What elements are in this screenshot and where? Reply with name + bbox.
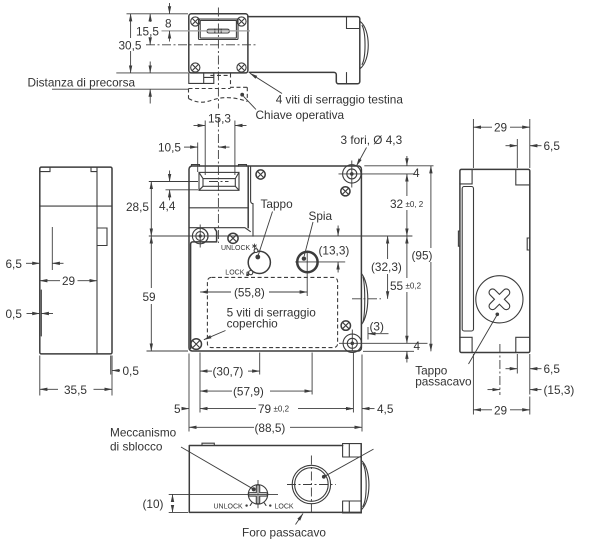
ext line: top hole center right	[362, 173, 414, 175]
right side view: bottom-left notch	[460, 337, 472, 352]
dim 10,5	[184, 146, 198, 148]
right side view: groove	[462, 187, 473, 332]
dim 5	[182, 408, 190, 410]
front view: Tappo dot	[255, 255, 260, 260]
svg-text:(55,8): (55,8)	[234, 286, 265, 300]
right side view: top-left notch	[460, 169, 472, 184]
bottom view: cable hole dot	[322, 475, 326, 479]
right side view: top-right notch	[516, 169, 530, 185]
svg-text:LOCK: LOCK	[225, 269, 244, 276]
front view: mounting lug left ear arc	[202, 229, 208, 244]
bottom view: body outline	[189, 446, 361, 513]
svg-text:35,5: 35,5	[64, 383, 87, 397]
front view: side plug bump inner	[363, 277, 365, 322]
leader: Meccanismo	[181, 447, 254, 489]
dim (15,3)	[488, 389, 500, 391]
svg-text:Distanza di precorsa: Distanza di precorsa	[28, 76, 136, 90]
ext line: bottom hole center right	[362, 342, 428, 344]
svg-text:UNLOCK: UNLOCK	[221, 245, 251, 252]
top view: key slot plate	[199, 19, 239, 40]
ext lines 35,5	[40, 356, 112, 396]
front view: cover screw 5	[191, 339, 202, 350]
front view: keyhole bevels	[199, 172, 239, 190]
front view: cover screw 3	[228, 233, 238, 243]
svg-text:±0,2: ±0,2	[274, 405, 290, 414]
front view: head lower step	[189, 228, 250, 232]
svg-text:10,5: 10,5	[158, 141, 181, 155]
left side view: cover seam	[96, 167, 98, 354]
right side view: bottom-right notch	[516, 337, 530, 352]
leader: Tappo passacavo	[469, 315, 498, 364]
svg-text:6,5: 6,5	[544, 139, 561, 153]
svg-text:30,5: 30,5	[119, 39, 142, 53]
ext line 6,5	[51, 227, 53, 270]
top view: head screw M4	[237, 63, 246, 72]
dim (3)	[367, 327, 369, 340]
top view: gray key-level line	[162, 30, 251, 32]
svg-text:29: 29	[62, 274, 75, 288]
ext line: body top right	[364, 165, 433, 167]
dim (10)	[169, 511, 188, 513]
top view: head horizontal centerline	[146, 44, 256, 46]
svg-text:4,4: 4,4	[159, 199, 176, 213]
right side view: bottom centerline	[499, 344, 501, 395]
front view: mounting hole top-right	[339, 161, 364, 188]
front view: Spia dot	[302, 256, 306, 260]
dim 6,5 top	[506, 145, 518, 147]
top view: head housing	[189, 14, 248, 73]
dim 55 +-0,2	[406, 236, 408, 278]
top view: body seam bottom	[346, 73, 348, 84]
dim 29 top	[473, 126, 492, 128]
dim (13,3)	[337, 226, 339, 237]
svg-text:±0,2: ±0,2	[406, 282, 422, 291]
dim 15,3	[194, 125, 206, 127]
svg-text:4 viti di serraggio testina: 4 viti di serraggio testina	[276, 93, 404, 107]
ext line: body bottom right	[363, 350, 414, 352]
bottom view: cable hole outer	[292, 465, 330, 503]
svg-text:8: 8	[165, 17, 172, 31]
svg-text:5: 5	[174, 402, 181, 416]
ext line: keyhole center left	[149, 181, 198, 183]
ext lines below body	[189, 353, 362, 432]
dim 30,5	[130, 14, 132, 38]
dim 15,5	[149, 14, 151, 22]
dim 6,5 left	[26, 262, 40, 264]
bottom view: key slot tab	[202, 443, 214, 445]
svg-text:di sblocco: di sblocco	[110, 440, 163, 454]
leader: Chiave operativa	[244, 96, 257, 109]
leader: 5 viti	[204, 331, 226, 340]
front view: cover screw 1	[256, 170, 265, 179]
ext lines bottom dims	[517, 354, 530, 395]
front view: body outline	[189, 166, 361, 351]
front view: mounting hole bottom-right	[339, 330, 362, 353]
dim 0,5 left	[27, 313, 40, 315]
leader: Foro passacavo	[296, 514, 304, 525]
dim (95)	[430, 166, 432, 248]
top view: operating key hidden outline	[189, 74, 248, 102]
svg-text:(10): (10)	[143, 497, 164, 511]
leader: 4 viti testina	[250, 73, 282, 93]
front view: side plug centerline	[352, 298, 381, 300]
svg-text:4: 4	[414, 339, 421, 353]
bottom view: release screw crosshair	[169, 480, 278, 508]
svg-text:59: 59	[143, 290, 156, 304]
svg-text:Foro passacavo: Foro passacavo	[242, 526, 326, 540]
front view: Spia crosshair	[295, 252, 345, 297]
bottom view: cable hole centerlines	[287, 456, 336, 515]
svg-text:(88,5): (88,5)	[255, 421, 286, 435]
dim 29 left view	[40, 280, 60, 282]
front view: Spia indicator circle	[297, 252, 317, 272]
front view: release housing step	[191, 229, 217, 349]
svg-text:6,5: 6,5	[544, 362, 561, 376]
front view: cover dashed outline	[207, 277, 337, 347]
leader: Tappo	[258, 212, 273, 257]
ext line: mounting holes mid reference	[149, 235, 413, 237]
bottom view: screw pointer ticks	[250, 503, 266, 505]
svg-text:(95): (95)	[412, 249, 433, 263]
bottom view: cable end inner arc	[363, 464, 366, 507]
dim 35,5	[40, 388, 58, 390]
ext lines 29 bottom	[473, 354, 529, 415]
svg-text:28,5: 28,5	[126, 200, 149, 214]
bottom view: release screw cross slot	[248, 485, 267, 504]
front view: vertical centerline	[217, 118, 219, 243]
front view: cover edge beside head	[251, 167, 253, 237]
ext line 6,5 top	[516, 139, 518, 168]
ext lines 29 top	[473, 119, 529, 168]
top view: head screw M1	[191, 17, 200, 26]
top view: cable end cap arc	[360, 21, 368, 68]
dim 4,5	[345, 408, 353, 410]
svg-text:Chiave operativa: Chiave operativa	[256, 108, 345, 122]
top view: body seam top	[347, 17, 360, 29]
top view: cable end inner arc	[362, 26, 365, 65]
dim 32 +-0,2	[406, 174, 408, 196]
ext line: head bottom	[116, 72, 188, 74]
front view: head top tabs	[192, 165, 247, 167]
top view: body bottom edge	[249, 72, 338, 83]
top view: key slot opening	[207, 29, 229, 33]
front view: Tappo plug circle	[248, 251, 270, 273]
dim 4,4	[169, 171, 171, 182]
svg-text:±0, 2: ±0, 2	[406, 200, 424, 209]
leader: Spia	[304, 222, 313, 256]
front view: keyhole centerline	[209, 181, 229, 183]
left side view: head/body line	[40, 205, 112, 207]
svg-text:55: 55	[390, 279, 404, 293]
front view: Tappo notch top	[254, 249, 258, 253]
front view: head block right edge	[247, 166, 249, 228]
svg-text:32: 32	[390, 197, 403, 211]
ext lines 0,5 bottom	[111, 356, 112, 375]
left side view: outline	[40, 167, 112, 354]
right side view: outline	[460, 169, 530, 352]
right side view: plug X cross	[481, 281, 518, 318]
svg-text:(3): (3)	[370, 320, 384, 334]
svg-text:(32,3): (32,3)	[371, 260, 402, 274]
front view: Tappo notch bottom	[249, 271, 253, 275]
front view: side plug bump outer	[361, 274, 367, 325]
left side view: 0,5 step edge	[40, 290, 42, 336]
dim 59	[150, 236, 152, 288]
top view: head vertical centerline	[217, 8, 219, 109]
svg-text:UNLOCK: UNLOCK	[214, 504, 244, 511]
top view: body outline	[248, 17, 360, 84]
svg-text:29: 29	[494, 403, 507, 417]
bottom view: conduit top cell	[343, 444, 362, 457]
dim 0,5 bottom-right	[112, 370, 120, 372]
svg-text:(30,7): (30,7)	[213, 365, 244, 379]
svg-text:(13,3): (13,3)	[319, 244, 350, 258]
front view: cover screw 2	[341, 187, 350, 196]
right side view: right lug tick	[527, 238, 530, 250]
dim (57,9)	[200, 390, 232, 392]
top view: operating key torn edge	[189, 98, 248, 103]
front view: keyhole outer	[199, 172, 239, 190]
right side view: plug dot	[496, 313, 500, 317]
bottom view: cable hole inner	[295, 468, 329, 502]
svg-text:Meccanismo: Meccanismo	[110, 426, 177, 440]
top view: head screw M3	[191, 63, 200, 72]
ext line: slot left	[197, 143, 199, 173]
svg-text:LOCK: LOCK	[275, 504, 294, 511]
svg-text:4: 4	[413, 166, 420, 180]
svg-text:4,5: 4,5	[377, 402, 394, 416]
top view: key entry tray	[189, 73, 214, 84]
svg-text:29: 29	[494, 121, 507, 135]
front view: mounting hole left	[192, 225, 208, 248]
svg-text:15,3: 15,3	[208, 112, 231, 126]
bottom view: release mechanism screw	[248, 485, 267, 504]
top view: key reference dot	[240, 93, 244, 97]
dim 29 bottom	[473, 409, 492, 411]
svg-text:coperchio: coperchio	[227, 317, 279, 331]
dim (88,5)	[189, 426, 254, 428]
ext lines: slot bevel	[205, 121, 235, 176]
leader: 3 fori	[357, 148, 367, 166]
dim 79 +-0,2	[200, 408, 256, 410]
dim 8	[169, 3, 171, 14]
right side view: gland plug circle	[476, 276, 523, 323]
top view: head screw M2	[237, 17, 246, 26]
right side view: left lug tick	[458, 231, 460, 246]
svg-text:6,5: 6,5	[6, 257, 23, 271]
dim 4 bottom	[406, 351, 408, 362]
left side view: mounting lug	[97, 228, 107, 246]
svg-text:(15,3): (15,3)	[544, 383, 575, 397]
front view: head block bottom	[189, 207, 248, 209]
ext line: keyhole bottom left	[166, 189, 199, 191]
svg-text:15,5: 15,5	[136, 25, 159, 39]
svg-text:3 fori, Ø 4,3: 3 fori, Ø 4,3	[341, 133, 403, 147]
bottom view: cable end cap arc	[361, 460, 369, 510]
dim (32,3)	[387, 236, 389, 259]
left side view: top-right notch	[91, 167, 97, 172]
svg-text:Tappo: Tappo	[261, 197, 294, 211]
leader: plug dot diagonal	[324, 449, 374, 477]
dim distanza di precorsa arrows	[149, 62, 151, 73]
svg-text:Spia: Spia	[309, 209, 333, 223]
svg-text:0,5: 0,5	[123, 364, 140, 378]
bottom view: conduit bottom cell	[343, 501, 362, 513]
svg-text:0,5: 0,5	[6, 307, 23, 321]
dim 4 top	[406, 156, 408, 166]
ext line: body bottom left	[147, 350, 189, 352]
dim 28,5	[150, 182, 152, 237]
dim (55,8)	[200, 291, 231, 293]
svg-text:(57,9): (57,9)	[233, 385, 264, 399]
svg-text:passacavo: passacavo	[415, 375, 472, 389]
dim 6,5 bottom	[506, 368, 518, 370]
left side view: top-left notch	[41, 167, 51, 172]
ext line: head top	[127, 13, 189, 15]
ext line: key top / precorsa	[52, 88, 188, 90]
svg-text:79: 79	[258, 402, 271, 416]
dim (30,7)	[200, 370, 212, 372]
front view: cover screw 4	[341, 321, 350, 330]
front view: keyhole inner	[203, 179, 235, 187]
bottom view: body right edge	[360, 444, 362, 513]
